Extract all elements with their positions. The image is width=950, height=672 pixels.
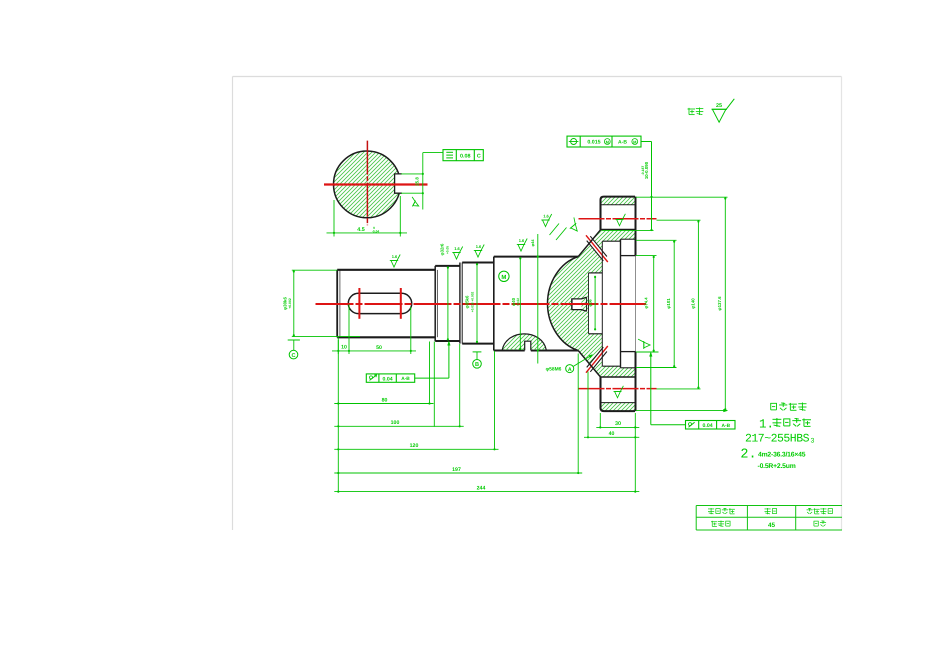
svg-text:10: 10 xyxy=(341,345,347,351)
svg-text:C: C xyxy=(291,353,295,359)
svg-text:φ40: φ40 xyxy=(511,297,516,306)
svg-text:80: 80 xyxy=(382,397,388,403)
svg-text:φ101: φ101 xyxy=(666,298,671,309)
svg-text:M: M xyxy=(501,274,506,281)
svg-text:1.6: 1.6 xyxy=(543,214,549,219)
svg-text:197: 197 xyxy=(452,467,461,473)
svg-text:45: 45 xyxy=(768,522,776,529)
svg-text:+0.05: +0.05 xyxy=(445,246,449,254)
svg-text:A-B: A-B xyxy=(401,376,410,382)
svg-text:50: 50 xyxy=(376,345,382,351)
svg-text:1.6: 1.6 xyxy=(476,244,482,249)
svg-text:A-B: A-B xyxy=(722,423,731,429)
svg-text:1.6: 1.6 xyxy=(519,238,525,243)
svg-text:30: 30 xyxy=(615,421,621,427)
svg-text:-0.04: -0.04 xyxy=(372,230,379,234)
svg-text:B: B xyxy=(475,362,479,368)
svg-text:C: C xyxy=(477,153,481,159)
svg-text:25.8: 25.8 xyxy=(415,177,420,186)
svg-text:φ30k6: φ30k6 xyxy=(283,296,288,309)
svg-text:0.015: 0.015 xyxy=(587,140,600,146)
svg-text:100: 100 xyxy=(391,420,400,426)
svg-text:1.6: 1.6 xyxy=(454,246,460,251)
svg-text:+0.002: +0.002 xyxy=(288,298,292,309)
svg-text:1.: 1. xyxy=(759,418,774,432)
svg-text:φ35k6: φ35k6 xyxy=(465,295,470,308)
svg-text:-0.187: -0.187 xyxy=(641,166,645,176)
svg-text:40: 40 xyxy=(609,431,615,437)
svg-text:φ74.4: φ74.4 xyxy=(644,297,649,309)
svg-text:0.04: 0.04 xyxy=(703,423,713,429)
svg-text:A: A xyxy=(568,367,572,373)
svg-text:φ56: φ56 xyxy=(587,299,592,307)
svg-text:φ137.6: φ137.6 xyxy=(717,296,722,311)
svg-text:0.04: 0.04 xyxy=(383,376,393,382)
svg-text:25: 25 xyxy=(716,103,722,109)
svg-text:A-B: A-B xyxy=(618,140,627,146)
svg-text:φ140: φ140 xyxy=(690,298,695,309)
svg-text:φ44: φ44 xyxy=(531,239,535,247)
svg-text:4.5: 4.5 xyxy=(357,227,365,233)
svg-text:4m2-36.3/16×45: 4m2-36.3/16×45 xyxy=(758,452,806,459)
svg-text:+0.02: +0.02 xyxy=(516,298,520,306)
svg-text:244: 244 xyxy=(477,485,486,491)
svg-text:217~255HBS₃: 217~255HBS₃ xyxy=(745,433,815,446)
svg-text:2.: 2. xyxy=(740,448,756,463)
svg-text:0.08: 0.08 xyxy=(460,153,471,159)
svg-text:φ32r6: φ32r6 xyxy=(440,243,445,256)
svg-text:120: 120 xyxy=(410,443,419,449)
svg-text:φ58M6: φ58M6 xyxy=(546,367,562,373)
svg-text:1.6: 1.6 xyxy=(392,254,398,259)
svg-text:-0.5R+2.5um: -0.5R+2.5um xyxy=(758,463,796,470)
svg-text:+0.018 +0.002: +0.018 +0.002 xyxy=(470,291,474,312)
